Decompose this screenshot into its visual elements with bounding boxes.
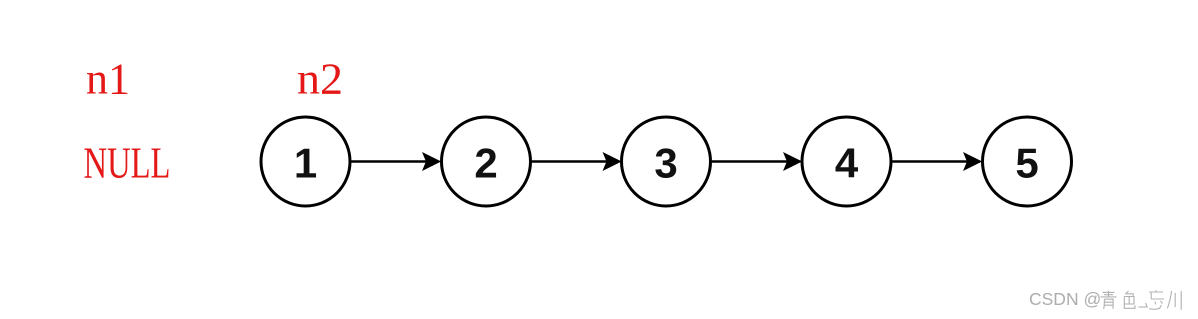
svg-text:NULL: NULL [84, 139, 171, 188]
svg-text:3: 3 [654, 140, 677, 187]
label n2 [297, 55, 343, 104]
watermark hanzi wang [1146, 290, 1165, 309]
svg-text:CSDN @: CSDN @ [1029, 289, 1101, 309]
wire arrow 1 to 2 [352, 153, 441, 170]
wire arrow 2 to 3 [532, 153, 621, 170]
svg-text:2: 2 [474, 140, 497, 187]
node 1 [261, 117, 350, 206]
watermark hanzi se [1124, 291, 1135, 308]
label n1 [86, 55, 130, 104]
node 2 [442, 117, 531, 206]
watermark hanzi qing [1101, 291, 1117, 309]
svg-text:5: 5 [1015, 140, 1038, 187]
svg-text:4: 4 [835, 140, 859, 187]
svg-text:1: 1 [294, 140, 317, 187]
wire arrow 4 to 5 [893, 153, 982, 170]
node 4 [802, 117, 891, 206]
node 3 [622, 117, 711, 206]
node 5 [983, 117, 1072, 206]
watermark CSDN @ [1029, 289, 1101, 309]
wire arrow 3 to 4 [712, 153, 801, 170]
watermark underscore [1139, 306, 1147, 308]
svg-text:n1: n1 [86, 55, 130, 104]
label NULL [84, 139, 171, 188]
svg-text:n2: n2 [297, 55, 343, 104]
watermark hanzi chuan [1167, 291, 1181, 310]
